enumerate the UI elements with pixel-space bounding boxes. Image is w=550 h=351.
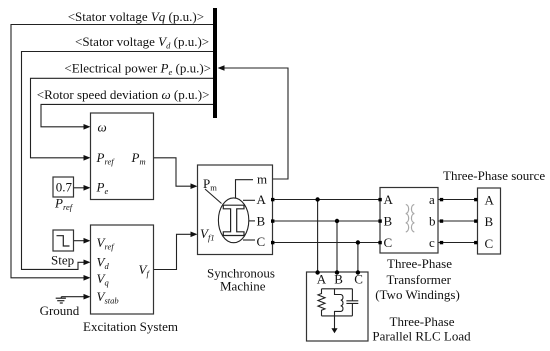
- machine icon C tap: [243, 239, 255, 241]
- svg-text:A: A: [257, 192, 267, 207]
- svg-text:A: A: [317, 272, 327, 287]
- load terminal node C: [356, 270, 360, 274]
- svg-text:C: C: [257, 234, 266, 249]
- wire constant 0.7 to P_e input: [74, 187, 85, 189]
- svg-text:C: C: [354, 272, 363, 287]
- svg-text:<Stator voltage Vq (p.u.)>: <Stator voltage Vq (p.u.)>: [68, 9, 204, 24]
- svg-text:C: C: [384, 235, 393, 250]
- svg-text:Ground: Ground: [40, 303, 80, 318]
- machine icon shaft line: [205, 189, 222, 204]
- wire Ground to V_stab input: [61, 296, 84, 298]
- wire phase C drop to load: [357, 243, 359, 273]
- arrowhead into w: [84, 124, 91, 130]
- svg-text:ω: ω: [98, 120, 107, 135]
- svg-text:<Electrical power Pe (p.u.)>: <Electrical power Pe (p.u.)>: [64, 61, 211, 78]
- svg-text:A: A: [384, 192, 394, 207]
- bus selector bar: [213, 8, 217, 118]
- step icon: [57, 236, 70, 246]
- load bottom rail: [322, 315, 353, 317]
- block Step: [53, 230, 74, 251]
- arrowhead into machine Vf1: [191, 232, 198, 238]
- block Excitation System: [91, 225, 154, 314]
- ground symbol: [56, 297, 66, 303]
- svg-text:b: b: [429, 214, 436, 229]
- wire Step to V_ref input: [74, 240, 85, 242]
- wire transformer a to source A: [438, 199, 478, 201]
- wire Pm governor output to machine Pm input: [154, 158, 191, 186]
- block Three-Phase source: [478, 188, 501, 254]
- transformer coil right: [411, 204, 414, 232]
- constant block 0.7: [53, 177, 74, 197]
- wire Vf excitation output to machine Vf1 input: [154, 234, 191, 269]
- wire transformer c to source C: [438, 242, 478, 244]
- transformer port squares right: [440, 198, 443, 244]
- load terminal node B: [335, 270, 339, 274]
- svg-text:Three-Phase: Three-Phase: [387, 256, 452, 271]
- block governor (turbine): [91, 113, 154, 200]
- wire phase A rail: [273, 199, 381, 201]
- load top rail: [322, 288, 353, 290]
- load capacitor: [346, 289, 358, 316]
- svg-text:Three-Phase: Three-Phase: [390, 314, 455, 329]
- machine icon A tap: [243, 199, 255, 201]
- svg-text:B: B: [257, 214, 266, 229]
- wire phase A drop to load: [317, 200, 319, 273]
- svg-text:c: c: [429, 235, 435, 250]
- svg-text:Parallel RLC Load: Parallel RLC Load: [372, 329, 471, 344]
- arrowhead into V_ref: [84, 238, 91, 244]
- svg-text:A: A: [485, 193, 495, 208]
- svg-text:<Rotor speed deviation ω (p.u.: <Rotor speed deviation ω (p.u.)>: [37, 87, 210, 102]
- source port squares: [474, 198, 477, 244]
- machine icon B tap: [249, 220, 255, 222]
- wire transformer b to source B: [438, 220, 478, 222]
- svg-text:0.7: 0.7: [56, 180, 73, 195]
- wire omega from bus selector to w input: [41, 104, 213, 126]
- block Three-Phase Parallel RLC Load: [307, 272, 369, 341]
- machine icon I-beam: [223, 205, 244, 235]
- transformer port squares left: [378, 198, 381, 244]
- wire phase B rail: [273, 220, 381, 222]
- load resistor: [318, 289, 325, 316]
- arrowhead into V_d: [84, 260, 91, 266]
- svg-text:Transformer: Transformer: [387, 272, 452, 287]
- arrowhead into V_q: [84, 275, 91, 281]
- svg-text:(Two Windings): (Two Windings): [375, 287, 460, 302]
- arrowhead into P_ref: [84, 155, 91, 161]
- wire phase C rail: [273, 242, 381, 244]
- junction node A: [315, 197, 319, 201]
- wire Vq from bus selector to V_q input: [11, 25, 213, 278]
- load ground stem: [334, 316, 336, 329]
- svg-text:Step: Step: [51, 253, 74, 268]
- svg-text:B: B: [384, 214, 393, 229]
- svg-text:B: B: [485, 214, 494, 229]
- wire phase B drop to load: [336, 221, 338, 272]
- block Three-Phase Transformer: [380, 188, 438, 254]
- machine icon ellipse: [218, 198, 248, 243]
- svg-text:Three-Phase source: Three-Phase source: [443, 168, 545, 183]
- svg-text:a: a: [429, 192, 435, 207]
- svg-text:C: C: [485, 236, 494, 251]
- arrowhead into V_stab: [84, 294, 91, 300]
- svg-text:<Stator voltage Vd (p.u.)>: <Stator voltage Vd (p.u.)>: [75, 34, 209, 51]
- svg-text:Machine: Machine: [220, 279, 266, 294]
- load terminal node A: [315, 270, 319, 274]
- arrowhead into bus selector: [218, 65, 225, 71]
- load ground arrow: [331, 328, 337, 333]
- svg-text:B: B: [334, 272, 343, 287]
- svg-text:Excitation System: Excitation System: [83, 319, 178, 334]
- wire Pe from bus selector to P_ref input: [31, 78, 214, 158]
- block Synchronous Machine: [198, 165, 273, 255]
- wire m output feedback to bus selector: [225, 68, 289, 179]
- arrowhead into machine Pm: [191, 183, 198, 189]
- svg-text:m: m: [257, 172, 267, 187]
- arrowhead into P_e: [84, 185, 91, 191]
- wire Vd from bus selector to V_d input: [22, 52, 214, 270]
- machine icon m tap: [236, 180, 254, 198]
- transformer coil left: [406, 204, 409, 232]
- junction node B: [335, 219, 339, 223]
- machine output port squares: [271, 198, 274, 244]
- junction node C: [356, 240, 360, 244]
- load inductor: [335, 289, 343, 316]
